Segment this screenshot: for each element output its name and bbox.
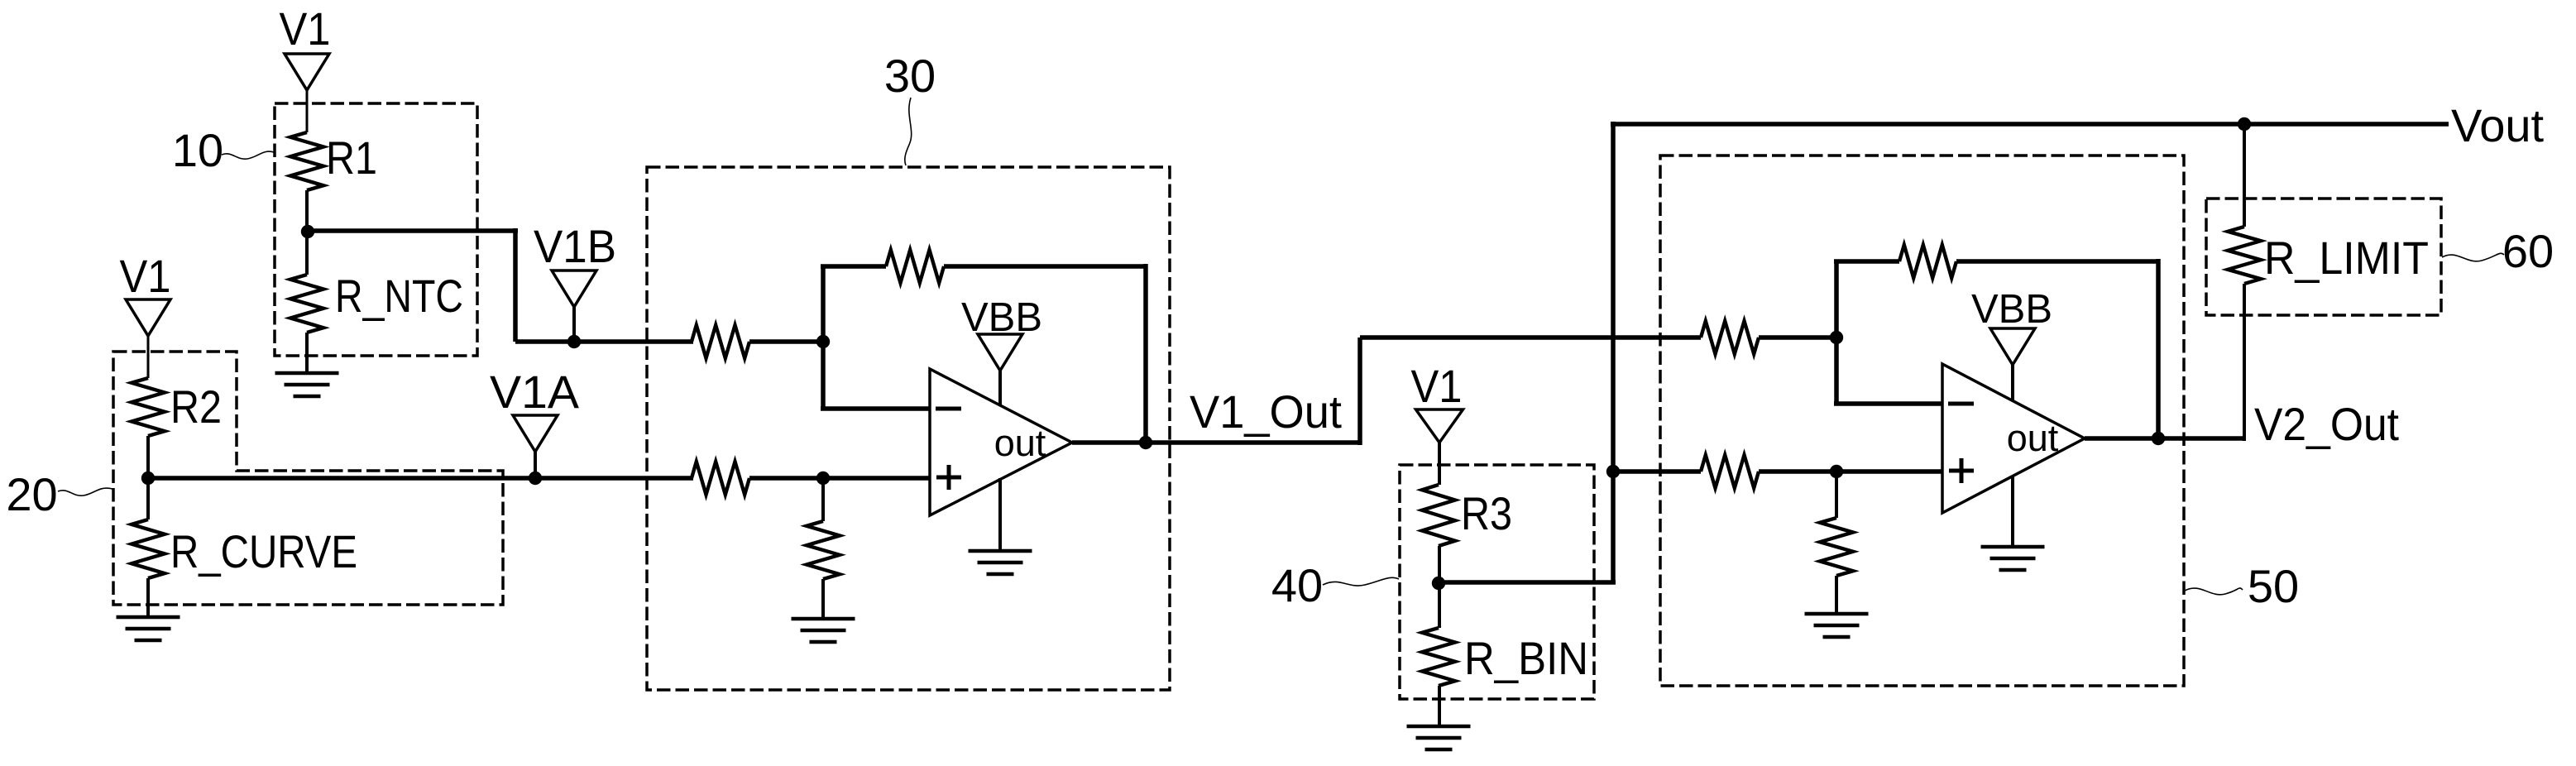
svg-text:R_LIMIT: R_LIMIT	[2264, 232, 2429, 284]
dashed box 20	[113, 352, 503, 605]
wire resistor to minus node (amp 50)	[1759, 335, 1836, 340]
node V1B	[567, 335, 581, 348]
node minus input (amp 30)	[816, 335, 830, 348]
svg-text:R2: R2	[170, 381, 222, 433]
svg-text:out: out	[994, 422, 1046, 464]
svg-text:out: out	[2007, 417, 2059, 459]
dashed box 60	[2206, 199, 2441, 315]
leader squiggle to box 50	[2185, 588, 2243, 595]
resistor R_NTC	[290, 275, 323, 333]
feedback resistor (amp 30)	[886, 250, 944, 283]
wire into minus input (amp 50)	[1834, 401, 1942, 406]
svg-text:60: 60	[2502, 225, 2554, 277]
wire R1 to junction	[305, 190, 309, 234]
stem plus node to ground resistor (amp 30)	[821, 478, 825, 521]
op-amp U2 triangle	[1942, 364, 2085, 513]
stem to ground (amp 50 plus)	[1835, 576, 1838, 614]
grounded resistor at plus input (amp 30)	[807, 521, 840, 579]
resistor R_in+ (amp 50)	[1701, 455, 1759, 488]
svg-text:40: 40	[1271, 559, 1323, 611]
power symbol V1 (feeds R3)	[1416, 409, 1463, 443]
leader squiggle to box 40	[1323, 577, 1399, 586]
wire minus node down (amp 50)	[1834, 338, 1839, 404]
wire to V1B node	[515, 339, 693, 344]
resistor R3	[1422, 485, 1455, 546]
feedback riser (amp 50)	[1834, 261, 1839, 340]
power symbol VBB (U1)	[978, 334, 1022, 371]
resistor R_LIMIT	[2228, 227, 2261, 284]
wire R3 junction to Vout drop	[1439, 580, 1616, 585]
leader squiggle to box 30	[905, 98, 912, 165]
node plus input (amp 30)	[816, 472, 830, 485]
wire junction to R_BIN	[1438, 582, 1441, 628]
svg-text:Vout: Vout	[2451, 99, 2545, 151]
ground below U2	[1981, 545, 2045, 549]
svg-text:VBB: VBB	[1971, 287, 2052, 332]
wire junction 10 to corner	[305, 228, 518, 233]
node minus input (amp 50)	[1830, 331, 1843, 344]
svg-text:R1: R1	[326, 132, 377, 184]
leader squiggle to box 10	[222, 151, 274, 159]
svg-text:V1: V1	[280, 2, 331, 55]
resistor R_in- (amp 30)	[692, 325, 749, 358]
node junction R1/R_NTC	[301, 225, 314, 238]
plus sign (U1)	[936, 476, 961, 480]
wire resistor to minus node (amp 30)	[749, 339, 823, 344]
svg-text:V1B: V1B	[534, 220, 616, 272]
svg-text:R_BIN: R_BIN	[1464, 632, 1588, 684]
dashed box 50	[1660, 156, 2184, 686]
svg-text:V1_Out: V1_Out	[1190, 385, 1342, 438]
plus sign (U2)	[1949, 469, 1974, 473]
wire into minus input (amp 30)	[821, 406, 930, 411]
feedback top wire right (amp 30)	[944, 264, 1146, 269]
wire minus node down (amp 30)	[821, 342, 826, 409]
feedback riser (amp 30)	[821, 266, 826, 344]
svg-text:R_NTC: R_NTC	[335, 270, 463, 322]
feedback top wire left (amp 30)	[821, 264, 886, 269]
resistor R2	[132, 378, 165, 436]
resistor R_BIN	[1422, 628, 1455, 686]
ground below R_NTC	[275, 371, 339, 376]
resistor R1	[290, 132, 323, 190]
power tap symbol V1B	[552, 270, 596, 307]
node plus input (amp 50)	[1830, 465, 1843, 478]
wire R2 to junction	[146, 436, 150, 478]
node output (amp 30)	[1139, 436, 1152, 449]
Vout drop line	[1611, 122, 1616, 582]
minus sign (U2)	[1948, 402, 1974, 406]
wire resistor to plus node (amp 30)	[749, 476, 930, 481]
stem to ground (amp 30 plus)	[821, 579, 825, 619]
leader squiggle to box 60	[2442, 253, 2504, 261]
dashed box 10	[275, 103, 477, 356]
node plus feed tap	[1606, 465, 1620, 478]
power tap symbol V1A	[513, 415, 558, 452]
power symbol V1 (feeds R2)	[126, 299, 170, 336]
stem U1 to ground	[998, 478, 1002, 551]
feedback top wire right (amp 50)	[1956, 259, 2158, 264]
node junction R3/R_BIN	[1432, 577, 1445, 590]
resistor R_CURVE	[132, 519, 165, 578]
wire corner down to V1B level	[513, 228, 518, 342]
wire resistor to plus node (amp 50)	[1759, 469, 1942, 474]
wire R3 to junction	[1438, 546, 1441, 582]
ground below plus resistor (amp 50)	[1805, 612, 1869, 616]
dashed box 40	[1400, 465, 1594, 699]
svg-text:V1A: V1A	[490, 366, 580, 418]
node Vout/R_LIMIT	[2238, 117, 2251, 131]
wire V1A node to amp 30	[146, 476, 693, 481]
node V1A	[529, 472, 542, 485]
svg-text:30: 30	[884, 50, 936, 102]
output wire U1	[1072, 440, 1362, 445]
wire R_BIN to ground	[1438, 686, 1441, 726]
output wire U2	[2085, 436, 2244, 441]
svg-text:50: 50	[2248, 560, 2299, 612]
wire V1_Out to amp 50 minus resistor	[1360, 335, 1701, 340]
feedback drop to output (amp 30)	[1143, 264, 1148, 443]
dashed box 30	[647, 167, 1170, 690]
stem U2 to ground	[2011, 476, 2014, 547]
resistor R_in- (amp 50)	[1701, 321, 1759, 354]
svg-text:R3: R3	[1461, 487, 1512, 539]
stem R_LIMIT to V2_Out wire	[2243, 284, 2246, 441]
svg-text:V1: V1	[1411, 360, 1463, 412]
node junction R2/R_CURVE	[141, 472, 155, 485]
power symbol V1 (top, feeds R1)	[285, 54, 329, 90]
stem Vout to R_LIMIT	[2243, 124, 2246, 227]
op-amp U1 triangle	[930, 369, 1072, 515]
wire R_NTC to ground	[305, 333, 309, 373]
ground below U1	[969, 549, 1032, 553]
feedback top wire left (amp 50)	[1834, 259, 1899, 264]
svg-text:10: 10	[172, 124, 223, 176]
feedback resistor (amp 50)	[1899, 245, 1956, 278]
svg-text:V2_Out: V2_Out	[2254, 398, 2399, 450]
wire junction to R_NTC	[305, 232, 309, 275]
svg-text:20: 20	[6, 468, 57, 520]
svg-text:V1: V1	[120, 250, 171, 302]
resistor R_in+ (amp 30)	[692, 462, 749, 495]
wire R_CURVE to ground	[146, 578, 150, 617]
wire junction to R_CURVE	[146, 478, 150, 519]
Vout top line	[1611, 122, 2449, 127]
leader squiggle to box 20	[58, 488, 113, 496]
svg-text:R_CURVE: R_CURVE	[170, 525, 357, 577]
grounded resistor at plus input (amp 50)	[1820, 518, 1853, 576]
wire tap to amp 50 plus resistor	[1613, 469, 1701, 474]
stem plus node to ground resistor (amp 50)	[1835, 472, 1838, 518]
feedback drop to output (amp 50)	[2156, 259, 2161, 438]
minus sign (U1)	[936, 407, 961, 411]
ground below R_CURVE	[117, 615, 180, 620]
riser V1_Out to minus feed	[1357, 338, 1362, 445]
power symbol VBB (U2)	[1990, 328, 2035, 365]
svg-text:VBB: VBB	[961, 295, 1042, 340]
ground below R_BIN	[1407, 725, 1471, 729]
node output (amp 50)	[2152, 432, 2165, 445]
ground below plus resistor (amp 30)	[792, 617, 855, 621]
